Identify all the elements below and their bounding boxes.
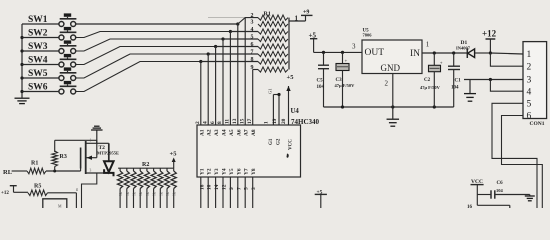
ground (CON1 pins 3-4): [464, 80, 476, 102]
svg-text:5: 5: [251, 35, 254, 41]
svg-text:Y3: Y3: [214, 168, 220, 175]
connector CON1: [523, 42, 547, 127]
svg-text:Y2: Y2: [207, 168, 213, 175]
svg-text:C6: C6: [497, 181, 504, 186]
svg-text:C5: C5: [317, 79, 324, 84]
svg-text:R2: R2: [142, 162, 149, 168]
svg-text:G1: G1: [269, 138, 274, 145]
svg-text:6: 6: [251, 42, 254, 48]
pin 9 / Y5 output: [229, 168, 235, 208]
svg-text:18: 18: [199, 184, 205, 190]
diode D1 IN4007: [456, 40, 490, 58]
svg-text:8: 8: [217, 121, 223, 124]
svg-text:14: 14: [214, 184, 220, 190]
pin 20 VCC with +5 arrow: [281, 74, 294, 150]
pin 14 / Y3 output: [214, 168, 220, 208]
wire pin 2: [490, 53, 523, 66]
svg-text:1k: 1k: [166, 192, 170, 196]
svg-text:74HC340: 74HC340: [291, 118, 320, 126]
svg-text:2: 2: [527, 62, 532, 72]
wire SW4 to R1 pin 5 and A-input: [76, 45, 258, 125]
svg-text:G2: G2: [277, 138, 282, 145]
wire R5 to load: [48, 193, 77, 208]
svg-text:47μ F/50V: 47μ F/50V: [335, 83, 356, 88]
svg-text:9: 9: [229, 187, 235, 190]
svg-text:+5: +5: [170, 151, 178, 158]
svg-text:IN: IN: [410, 49, 420, 59]
pin 7 / Y6 output: [236, 168, 242, 208]
power +12 (R5 feed): [1, 186, 28, 196]
svg-text:SW5: SW5: [28, 69, 48, 79]
svg-text:1: 1: [90, 139, 92, 143]
svg-text:2: 2: [385, 80, 389, 88]
svg-text:1: 1: [527, 50, 532, 60]
chip artifact speck: [287, 154, 289, 158]
pin 2 / A1: [195, 121, 205, 136]
switch SW4: [22, 54, 76, 67]
svg-text:12: 12: [222, 184, 228, 190]
svg-text:GND: GND: [381, 63, 401, 73]
pin 15 / A7: [239, 118, 249, 136]
wire pin 5: [492, 103, 537, 208]
svg-text:A6: A6: [236, 129, 242, 136]
pin 18 / Y1 output: [199, 168, 205, 208]
pin 6 / A3: [210, 121, 220, 136]
wire IN: [422, 41, 467, 55]
svg-text:Y6: Y6: [236, 168, 242, 175]
ground (switch bus): [15, 92, 30, 104]
svg-text:17: 17: [247, 118, 253, 124]
wire gate line: [46, 170, 81, 173]
svg-text:IN4007: IN4007: [456, 46, 471, 51]
svg-text:G1: G1: [268, 89, 273, 95]
svg-text:A5: A5: [229, 129, 235, 136]
svg-text:Y1: Y1: [199, 168, 205, 175]
wire R1 pin 9 to A8 input: [253, 70, 258, 126]
pin 12 / Y4 output: [222, 168, 228, 208]
svg-text:104: 104: [496, 188, 504, 193]
svg-text:2: 2: [195, 121, 201, 124]
wire SW3 to R1 pin 4 and A-input: [76, 37, 258, 125]
svg-text:SW3: SW3: [28, 42, 48, 52]
relay / load box (cut off): [43, 199, 67, 209]
svg-text:4: 4: [527, 87, 532, 97]
svg-text:20: 20: [281, 118, 287, 124]
svg-text:5: 5: [527, 100, 532, 110]
wire R3 top to source: [55, 139, 97, 141]
pin 3 / Y8 output: [251, 168, 257, 208]
svg-text:3: 3: [251, 187, 257, 190]
svg-text:3: 3: [527, 76, 532, 86]
power +12 (main): [482, 29, 497, 55]
power +5 (regulator output): [309, 32, 318, 53]
svg-text:3: 3: [251, 20, 254, 26]
svg-text:1k: 1k: [126, 192, 130, 196]
svg-text:15: 15: [239, 118, 245, 124]
svg-text:11: 11: [225, 119, 231, 124]
svg-text:3: 3: [352, 43, 356, 51]
svg-text:+: +: [440, 62, 443, 67]
svg-text:1k: 1k: [159, 192, 163, 196]
switch SW1: [22, 13, 76, 26]
svg-text:1k: 1k: [146, 192, 150, 196]
svg-text:1k: 1k: [133, 192, 137, 196]
svg-text:9: 9: [251, 65, 254, 71]
wire to lower IC pin 16: [467, 195, 510, 211]
pin 4 / A2: [202, 121, 212, 136]
svg-text:C2: C2: [424, 78, 431, 83]
svg-text:+12: +12: [1, 191, 9, 196]
wire SW1 to R1 pin 2 and A-input: [208, 17, 245, 19]
svg-text:19: 19: [272, 118, 278, 124]
switch SW6: [22, 81, 76, 94]
op-amp U5 7806 regulator: [362, 29, 422, 74]
diode D2 zener (body): [97, 143, 114, 176]
svg-text:A1: A1: [199, 129, 205, 136]
svg-text:A8: A8: [251, 129, 257, 136]
svg-text:5: 5: [244, 187, 250, 190]
power +5 (R2 common): [170, 151, 178, 169]
svg-text:13: 13: [232, 118, 238, 124]
svg-text:8: 8: [251, 57, 254, 63]
svg-text:SW6: SW6: [28, 83, 48, 93]
svg-text:7: 7: [251, 50, 254, 56]
capacitor C3 electrolytic: [335, 52, 356, 107]
svg-text:A4: A4: [222, 129, 228, 136]
wire pin 6: [502, 116, 543, 209]
resistor R1 (gate): [12, 161, 46, 174]
svg-text:2: 2: [251, 13, 254, 19]
svg-text:4: 4: [251, 27, 254, 33]
capacitor C1: [448, 53, 461, 107]
wire GND pin 2: [385, 74, 393, 108]
wire OUT: [314, 43, 362, 55]
resistor R3 (gate-source): [52, 140, 67, 171]
wire SW5 to R1 pin 6 and A-input: [76, 52, 258, 125]
svg-text:SW4: SW4: [28, 56, 48, 66]
ground (regulator): [387, 107, 400, 126]
svg-text:A3: A3: [214, 129, 220, 136]
svg-text:104: 104: [317, 85, 325, 90]
svg-text:16: 16: [467, 205, 473, 208]
wire switch bus: [20, 24, 23, 93]
svg-text:7: 7: [236, 187, 242, 190]
svg-text:M: M: [58, 204, 62, 209]
svg-text:Y5: Y5: [229, 168, 235, 175]
transistor T2 MTP2955E MOSFET: [75, 139, 119, 209]
svg-text:1k: 1k: [153, 192, 157, 196]
wire ground rail: [324, 105, 454, 108]
svg-text:Y8: Y8: [251, 168, 257, 175]
ground (T2 source): [91, 126, 103, 143]
ground (C6): [525, 195, 535, 201]
pin 16 / Y2 output: [207, 168, 213, 208]
switch SW5: [22, 67, 76, 80]
svg-text:A7: A7: [244, 129, 250, 136]
svg-text:1: 1: [295, 15, 299, 23]
svg-text:A2: A2: [207, 129, 213, 136]
svg-text:CON1: CON1: [530, 121, 545, 127]
resistor network R2: [118, 162, 177, 208]
wire pin 1 (+12): [490, 53, 523, 54]
power VCC: [471, 179, 484, 195]
pin 11 / A5: [225, 119, 235, 136]
wire pin 3 ground line: [464, 78, 523, 81]
svg-text:+12: +12: [482, 29, 497, 39]
svg-text:+9: +9: [303, 10, 309, 16]
switch SW2: [22, 27, 76, 40]
pin 13 / A6: [232, 118, 242, 136]
svg-text:C1: C1: [455, 79, 462, 84]
svg-text:OUT: OUT: [365, 48, 385, 58]
svg-text:1: 1: [264, 121, 270, 124]
svg-text:Y4: Y4: [222, 168, 228, 175]
capacitor C2 electrolytic: [420, 53, 443, 107]
svg-text:Y7: Y7: [244, 168, 250, 175]
svg-text:R3: R3: [60, 154, 67, 160]
svg-text:U4: U4: [291, 108, 300, 115]
power +9 (R1 common, pin 1): [289, 10, 313, 23]
wire pin 4: [490, 80, 523, 92]
svg-text:4: 4: [202, 121, 208, 124]
pin 8 / A4: [217, 121, 227, 136]
capacitor C5: [317, 52, 330, 107]
capacitor C6: [477, 181, 530, 199]
svg-text:1: 1: [426, 41, 430, 49]
resistor network R1: [251, 12, 290, 73]
switch SW3: [22, 40, 76, 53]
pin 1 G1 / pin 19 G2 enable: [264, 89, 282, 146]
wire SW2 to R1 pin 3 and A-input: [76, 30, 258, 125]
wire SW6 to R1 pin 7 and A-input: [76, 60, 258, 125]
svg-text:7806: 7806: [363, 33, 373, 38]
op-amp U4 74HC340 buffer IC: [197, 108, 320, 177]
svg-text:104: 104: [451, 86, 459, 91]
svg-text:1k: 1k: [173, 192, 177, 196]
svg-text:+: +: [345, 60, 348, 65]
svg-text:R5: R5: [34, 184, 41, 190]
svg-text:VCC: VCC: [289, 139, 294, 150]
svg-text:SW1: SW1: [28, 15, 48, 25]
pin 17 / A8: [247, 118, 257, 136]
power +5 (lower): [315, 189, 327, 208]
resistor R5: [28, 184, 48, 196]
svg-text:16: 16: [207, 184, 213, 190]
svg-text:RL: RL: [3, 169, 13, 176]
svg-text:6: 6: [210, 121, 216, 124]
svg-text:1k: 1k: [119, 192, 123, 196]
svg-text:SW2: SW2: [28, 29, 48, 39]
svg-text:1k: 1k: [139, 192, 143, 196]
svg-text:R1: R1: [31, 161, 38, 167]
svg-text:+5: +5: [287, 74, 295, 81]
svg-text:m: m: [75, 188, 79, 191]
svg-text:3: 3: [90, 169, 92, 173]
svg-text:47μ F/50V: 47μ F/50V: [420, 85, 441, 90]
pin 5 / Y7 output: [244, 168, 250, 208]
